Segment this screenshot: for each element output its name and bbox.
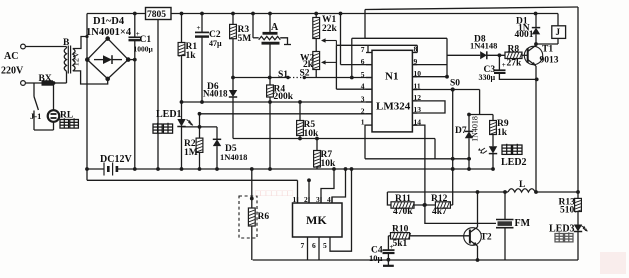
svg-text:6: 6: [312, 241, 316, 250]
wire left column x87: [86, 14, 88, 60]
transistor T1 9013: [524, 46, 542, 64]
resistor R3: [232, 14, 234, 25]
junction secondary-top to column: [85, 35, 88, 38]
svg-text:DC12V: DC12V: [100, 154, 132, 165]
wire pin1 drop: [365, 125, 366, 159]
wire x452.7 column: [452, 90, 454, 206]
wire MK pin7: [307, 243, 309, 260]
wire MK pin2: [308, 180, 310, 203]
svg-text:N4018: N4018: [203, 89, 228, 99]
relay contact J-1: [33, 83, 35, 97]
wire mid rail y138.5: [233, 138, 435, 140]
resistor R11: [387, 192, 391, 205]
socket RL: [48, 110, 60, 122]
transformer B: [64, 48, 66, 71]
LED2: [489, 146, 497, 153]
svg-text:A: A: [271, 22, 279, 33]
wire y38.3 to pin9 column: [365, 37, 447, 39]
AC input terminal top: [21, 44, 26, 49]
svg-text:S2: S2: [300, 69, 310, 79]
wire pin2 rail y113.8: [200, 113, 373, 115]
wire RL to fuse node: [53, 83, 55, 110]
svg-text:D1~D4: D1~D4: [93, 16, 125, 27]
AC input terminal bottom: [21, 81, 26, 86]
diode D6: [232, 78, 234, 91]
wire pin10: [412, 76, 447, 78]
svg-text:4001: 4001: [515, 30, 534, 40]
diode D1 1N4001: [534, 12, 538, 16]
wire pin4: [336, 88, 372, 90]
wire primary top: [66, 47, 68, 49]
svg-text:J-1: J-1: [30, 111, 41, 121]
wire riser x435: [434, 139, 436, 159]
capacitor C1: [134, 14, 136, 38]
svg-text:T1: T1: [542, 45, 553, 55]
label 绿色: [153, 123, 162, 133]
resistor R2: [198, 112, 202, 116]
svg-text:5k1: 5k1: [393, 239, 408, 249]
wire top feedback line: [365, 7, 578, 10]
wire rail y77.5 with switch S1 S2: [233, 77, 288, 79]
IC MK: [293, 203, 343, 237]
svg-text:3: 3: [316, 195, 320, 204]
relay coil J: [557, 14, 559, 26]
regulator 7805: [146, 8, 172, 20]
wire J-1/RL bottom: [34, 129, 54, 131]
label 黄色: [502, 144, 511, 155]
svg-text:FM: FM: [515, 218, 531, 229]
wire bridge plus: [128, 59, 135, 61]
label 红色: [555, 232, 563, 242]
svg-text:S1: S1: [278, 70, 288, 80]
potentiometer W1: [315, 14, 317, 18]
svg-text:R8: R8: [508, 44, 520, 54]
resistor R13: [575, 198, 582, 211]
wire AC top: [26, 46, 67, 48]
wire MK pin4: [332, 169, 346, 203]
wire MK pin6: [318, 243, 320, 260]
wire MK pin3: [321, 169, 334, 203]
wire MK pin1 long line: [87, 179, 298, 181]
wire MK pin5: [330, 169, 352, 251]
LED3: [574, 225, 582, 232]
svg-text:470k: 470k: [393, 207, 413, 217]
svg-text:27k: 27k: [507, 58, 523, 68]
svg-text:1M: 1M: [184, 148, 198, 158]
wire 7805 ground: [157, 20, 159, 170]
svg-text:+: +: [197, 24, 201, 32]
svg-text:1k: 1k: [497, 128, 508, 138]
bridge rectifier D1~D4: [87, 39, 128, 79]
svg-text:5: 5: [323, 241, 327, 250]
resistor R6 with dashed box: [239, 196, 257, 238]
svg-text:R10: R10: [392, 225, 409, 235]
resistor R10: [388, 235, 390, 237]
svg-text:D7: D7: [455, 126, 467, 136]
svg-text:7: 7: [301, 241, 305, 250]
svg-text:5M: 5M: [238, 34, 252, 44]
wire AC bottom: [26, 82, 43, 84]
wire secondary top jog: [73, 37, 87, 49]
wire rail y126.9: [182, 126, 218, 128]
svg-text:LED2: LED2: [501, 157, 527, 168]
wire pin5 riser x351.8: [350, 76, 354, 80]
svg-text:R6: R6: [258, 212, 270, 222]
svg-text:R11: R11: [395, 194, 411, 204]
svg-text:BX: BX: [39, 74, 52, 84]
svg-text:LM324: LM324: [376, 101, 411, 113]
svg-text:C1: C1: [140, 35, 152, 45]
wire pins12-13 loop: [412, 101, 445, 113]
svg-text:330µ: 330µ: [479, 73, 496, 82]
svg-text:S0: S0: [450, 79, 460, 89]
svg-text:4: 4: [327, 195, 331, 204]
svg-text:2k: 2k: [303, 60, 314, 70]
wire L line y192: [387, 191, 508, 193]
resistor R9: [469, 114, 493, 116]
svg-text:7805: 7805: [147, 10, 166, 20]
svg-text:8: 8: [414, 45, 418, 54]
svg-text:47µ: 47µ: [209, 39, 222, 48]
wire rail y169: [87, 168, 104, 170]
svg-text:LED3: LED3: [549, 224, 575, 235]
svg-text:510: 510: [560, 206, 575, 216]
fuse BX: [42, 81, 53, 85]
wire line y158.8: [365, 158, 471, 160]
resistor R4: [268, 76, 272, 80]
svg-text:MK: MK: [306, 213, 327, 227]
svg-text:J: J: [556, 27, 561, 37]
wire right column x578: [577, 7, 579, 198]
label 插座: [60, 118, 69, 128]
wire pin6 riser: [339, 12, 343, 16]
wire x270 lower: [269, 102, 271, 169]
resistor R8: [505, 52, 522, 58]
svg-text:1N4001×4: 1N4001×4: [86, 27, 132, 38]
svg-text:AC: AC: [4, 51, 18, 62]
svg-text:5: 5: [361, 70, 365, 79]
svg-text:+: +: [390, 243, 394, 251]
svg-text:4k7: 4k7: [432, 207, 447, 217]
svg-text:1N4018: 1N4018: [471, 116, 480, 142]
svg-text:T2: T2: [481, 233, 492, 243]
resistor R5: [298, 100, 302, 104]
wire top rail: [87, 13, 146, 15]
LED1: [181, 102, 183, 119]
diode D5: [216, 127, 218, 139]
svg-text:200k: 200k: [274, 92, 294, 102]
svg-text:1: 1: [361, 118, 365, 127]
wire pin11 S0: [412, 89, 479, 91]
resistor R12: [435, 202, 450, 208]
wire rail y102: [182, 101, 373, 103]
capacitor C2: [201, 14, 203, 33]
resistor R1: [181, 14, 183, 43]
svg-text:6: 6: [361, 57, 365, 66]
svg-text:7: 7: [361, 45, 365, 54]
svg-text:4: 4: [361, 82, 365, 91]
svg-text:1: 1: [293, 195, 297, 204]
svg-text:1N4018: 1N4018: [220, 152, 247, 162]
wire riser x365: [364, 10, 366, 39]
svg-text:1k: 1k: [186, 51, 197, 61]
svg-text:LED1: LED1: [156, 109, 182, 120]
diode D7: [468, 115, 470, 132]
svg-text:+: +: [502, 61, 506, 69]
svg-text:N1: N1: [385, 71, 398, 83]
svg-text:R12: R12: [431, 194, 448, 204]
wire primary bottom: [66, 71, 68, 83]
capacitor C3: [498, 55, 500, 70]
wire secondary bottom: [73, 71, 108, 84]
wire MK pin1: [297, 180, 299, 203]
resistor R7: [315, 137, 319, 141]
svg-text:9013: 9013: [540, 56, 559, 66]
wire pin14 column: [412, 125, 496, 223]
svg-text:1000µ: 1000µ: [134, 45, 154, 54]
svg-text:1N4148: 1N4148: [470, 41, 497, 51]
op-amp N1 LM324: [372, 50, 412, 132]
wire nest y45.3 pin8: [336, 44, 417, 46]
svg-text:2: 2: [304, 195, 308, 204]
svg-text:□□□□□□□: □□□□□□□: [255, 188, 294, 198]
transistor T2: [464, 228, 482, 246]
svg-text:12V: 12V: [71, 51, 81, 67]
svg-text:22k: 22k: [322, 24, 338, 34]
battery DC12V: [103, 163, 105, 176]
wire T1 emitter column: [535, 66, 537, 192]
svg-text:3: 3: [361, 95, 365, 104]
wire T2 emitter: [477, 246, 479, 260]
svg-text:220V: 220V: [1, 66, 24, 77]
wire T2 collector: [477, 192, 479, 227]
capacitor C4: [387, 236, 389, 250]
wire bottom rail y260: [253, 259, 578, 261]
diode D8: [447, 54, 480, 56]
potentiometer W2: [315, 39, 317, 52]
wire pin9: [412, 64, 447, 66]
buzzer FM: [504, 192, 506, 219]
svg-text:10µ: 10µ: [369, 253, 383, 263]
